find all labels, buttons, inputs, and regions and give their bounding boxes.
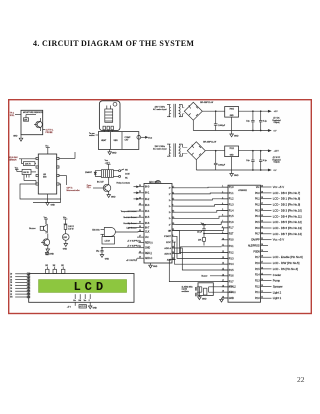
LCD supply pins <box>73 294 90 302</box>
wire +V rail (5 V) <box>202 110 268 112</box>
wire GND (MCU pin20) <box>220 298 228 302</box>
svg-text:SEN: SEN <box>114 140 119 142</box>
diode D1 1N4007 (flyback) <box>85 171 101 177</box>
label supply (ADC REF) <box>127 246 140 248</box>
ADC pin IN-6 <box>139 222 151 226</box>
wire LCD data 3 <box>10 279 30 282</box>
label BR-GBPC1-W (5 V) <box>200 102 213 104</box>
MCU pin 5 P1.4 <box>222 209 235 212</box>
svg-text:oscillator: oscillator <box>182 290 190 293</box>
svg-text:sensor: sensor <box>89 134 95 137</box>
voltage regulator 7812 (12 V) <box>225 146 239 170</box>
MCU pin 21 P2.0 <box>255 296 282 300</box>
schematic border frame <box>9 100 312 314</box>
wire 0V rail (5 V) <box>193 120 268 130</box>
ADC pin 2-4 <box>169 205 176 208</box>
svg-text:Pump: Pump <box>273 279 281 283</box>
ADC pin START <box>164 235 175 238</box>
svg-text:Vss: Vss <box>73 300 76 302</box>
MCU pin 36 P0.3 <box>255 208 302 212</box>
svg-text:CLK: CLK <box>145 232 150 234</box>
wire (sensor input) <box>134 198 139 200</box>
wire +V rail (12 V) <box>205 150 268 152</box>
ADC pin IN-4 <box>139 210 151 214</box>
svg-text:31: 31 <box>261 238 263 240</box>
svg-text:10 µF: 10 µF <box>197 231 203 233</box>
pin 7 (LM358 right) <box>57 166 59 168</box>
wire (ADC control to MCU P3.x) <box>176 236 229 258</box>
svg-text:LCD - DB 5 [Pin No.12]: LCD - DB 5 [Pin No.12] <box>273 220 302 224</box>
pin 8 (LM358 right) <box>57 157 59 159</box>
svg-text:IN-7: IN-7 <box>145 228 150 230</box>
svg-text:19: 19 <box>172 217 174 219</box>
MCU pin 9 RST <box>222 232 234 235</box>
ADC pin IN-0 <box>139 185 151 189</box>
MCU pin 4 P1.3 <box>222 203 235 206</box>
resistor 4.7K (LCD backlight) <box>79 305 86 309</box>
svg-text:REF(-): REF(-) <box>145 253 152 255</box>
AC mains input label (5 V) <box>153 107 167 112</box>
ADC pin 2-5 <box>169 211 176 214</box>
svg-text:P0.3: P0.3 <box>255 210 260 212</box>
svg-text:4.7K R: 4.7K R <box>80 306 87 308</box>
svg-text:GND: GND <box>234 175 239 177</box>
svg-text:27: 27 <box>261 262 263 264</box>
svg-text:REF(+): REF(+) <box>145 242 153 244</box>
ADC pin 2-6 <box>169 217 176 220</box>
MCU pin 1 P1.0 <box>222 186 235 189</box>
transformer T (5 V) <box>167 104 183 118</box>
ADC pin GND <box>139 246 151 250</box>
ADC pin IN-2 <box>139 197 151 201</box>
svg-text:17: 17 <box>139 236 141 238</box>
wire LCD data 8 <box>10 293 30 296</box>
wire (ADC ground reference) <box>102 247 139 248</box>
MQ-6 module pins <box>103 126 113 131</box>
svg-text:GND: GND <box>93 308 98 310</box>
filter capacitor 1000uF (12 V) <box>214 150 226 170</box>
wire (sensor input) <box>134 186 139 188</box>
svg-text:D7: D7 <box>10 294 12 296</box>
svg-text:LCD - DB 0 [Pin No.7]: LCD - DB 0 [Pin No.7] <box>273 191 301 195</box>
op-amp U2 LM358 <box>38 154 56 194</box>
power node Vcc +12V (relay) <box>105 160 111 170</box>
svg-text:1N4007: 1N4007 <box>85 172 93 174</box>
ADC pin 2-7 <box>169 223 176 226</box>
svg-text:38: 38 <box>261 197 263 199</box>
svg-text:LCD - DB 7 [Pin No.14]: LCD - DB 7 [Pin No.14] <box>273 232 302 236</box>
svg-text:IN-5: IN-5 <box>145 217 150 219</box>
MCU pin 27 P2.6 <box>255 261 300 265</box>
buzzer BZ1 <box>29 219 47 232</box>
wire (ADC data to MCU P1.3) <box>176 205 229 207</box>
pin 1 (LM358 left) <box>36 157 38 159</box>
label regulated output (12 V) <box>272 157 280 163</box>
svg-text:24: 24 <box>261 279 263 281</box>
svg-text:22: 22 <box>261 291 263 293</box>
svg-text:P0.4: P0.4 <box>255 216 260 218</box>
label regulated output (5 V) <box>272 118 280 124</box>
wire (LM358 pin to ADC) <box>59 152 75 159</box>
svg-text:Output): Output) <box>274 161 280 164</box>
bridge rectifier BR (5 V) <box>183 102 203 120</box>
svg-text:LCD - DB 2 [Pin No.9]: LCD - DB 2 [Pin No.9] <box>273 203 301 207</box>
filter capacitor 1000uF (5 V) <box>214 111 226 131</box>
svg-text:23: 23 <box>139 203 141 205</box>
label MQ output <box>43 130 55 134</box>
svg-text:D4: D4 <box>10 285 12 287</box>
transistor Q1 (BC547 in sensor box) <box>34 118 42 131</box>
svg-text:+12 V: +12 V <box>274 151 280 153</box>
power node Vcc (reset) <box>201 223 206 229</box>
transistor Q4 BC547 (relay driver) <box>97 177 111 191</box>
svg-text:1000µF: 1000µF <box>218 125 226 127</box>
svg-text:P2.4: P2.4 <box>255 275 260 277</box>
svg-text:XTAL2: XTAL2 <box>229 286 237 289</box>
wire (ADC control to MCU P3.x) <box>176 231 229 253</box>
svg-text:P3.4: P3.4 <box>229 264 234 266</box>
wire (ADC data to MCU P1.4) <box>176 210 229 212</box>
capacitor 0.1&#181;F (5 V) <box>259 111 268 131</box>
ground (LM358) <box>46 203 56 207</box>
svg-text:25: 25 <box>139 191 141 193</box>
MCU pin 13 P3.3 <box>222 257 235 260</box>
svg-text:34: 34 <box>261 221 263 223</box>
ground (gas module) <box>108 149 117 154</box>
AC mains input label (12 V) <box>153 146 167 151</box>
svg-text:28: 28 <box>261 256 263 258</box>
svg-text:10: 10 <box>222 238 224 240</box>
crystal circuit box <box>198 283 213 296</box>
MCU pin 20 GND <box>222 297 235 300</box>
svg-text:Vcc +5 V: Vcc +5 V <box>273 238 284 242</box>
svg-text:33: 33 <box>261 227 263 229</box>
svg-text:11: 11 <box>222 245 224 247</box>
voltage regulator 7805 (5 V) <box>225 107 239 131</box>
svg-text:LCD - DB 4 [Pin No.11]: LCD - DB 4 [Pin No.11] <box>273 214 302 218</box>
svg-text:LCD - DB 6 [Pin No.13]: LCD - DB 6 [Pin No.13] <box>273 226 302 230</box>
MCU pin 30 ALE/PROG <box>248 244 268 247</box>
wire (ADC data to MCU P1.7) <box>176 228 229 231</box>
ADC U3 0808 body <box>144 181 172 264</box>
ground (sensor box) <box>13 135 23 142</box>
label crystal oscillator <box>182 286 193 292</box>
svg-text:+5 V SUPPLY: +5 V SUPPLY <box>126 260 138 262</box>
MCU pin 16 P3.6 <box>222 274 235 277</box>
power node Vcc (LM35) <box>15 167 22 171</box>
microcontroller U5 AT89S52 body <box>228 185 261 302</box>
ADC pin IN-1 <box>139 191 151 195</box>
ADC pin REF(-) <box>139 251 153 255</box>
LCD text <box>73 280 107 294</box>
capacitor C1 (XTAL2) <box>196 287 199 291</box>
svg-text:D5: D5 <box>10 288 12 290</box>
wire (ADC control to MCU P3.x) <box>176 248 229 270</box>
svg-text:Vcc: Vcc <box>45 145 48 147</box>
svg-text:ADD-C: ADD-C <box>145 257 153 260</box>
MCU pin 39 P0.0 <box>255 191 300 195</box>
MCU pin 12 P3.2 <box>222 251 235 254</box>
svg-text:P3.3: P3.3 <box>229 258 234 260</box>
MCU pin 22 P2.1 <box>255 290 282 294</box>
MCU pin 29 PSEN <box>253 250 268 253</box>
svg-text:26: 26 <box>139 185 141 187</box>
svg-text:P2.2: P2.2 <box>255 286 260 288</box>
svg-text:1.5 kH: 1.5 kH <box>105 241 111 243</box>
ADC pin EOC <box>166 241 175 244</box>
svg-text:Vcc: Vcc <box>201 223 204 225</box>
svg-text:1/4 W: 1/4 W <box>68 228 73 230</box>
svg-text:GND: GND <box>145 248 150 250</box>
svg-text:P2.5: P2.5 <box>255 269 260 271</box>
svg-text:GND: GND <box>63 249 68 251</box>
power node Vcc (buzzer) <box>44 217 48 224</box>
MCU pin 18 XTAL2 <box>222 285 237 288</box>
svg-text:GND: GND <box>49 254 54 256</box>
resistor 10K (LDR divider) <box>64 224 75 234</box>
svg-text:P1.0: P1.0 <box>229 187 234 189</box>
LCD contrast trimmers <box>45 265 65 273</box>
label BR-GBPC1-W (12 V) <box>203 141 216 143</box>
MCU pin 15 P3.5 <box>222 269 235 272</box>
svg-text:26: 26 <box>261 267 263 269</box>
svg-text:Light 1: Light 1 <box>273 296 282 300</box>
svg-text:P0.5: P0.5 <box>255 222 260 224</box>
svg-text:6: 6 <box>172 235 173 237</box>
wire LCD data 9 <box>10 296 30 299</box>
svg-text:22: 22 <box>139 210 141 212</box>
svg-text:LCD: LCD <box>73 280 107 294</box>
pin 3 (LM358 left) <box>36 174 38 176</box>
label Light Sensor <box>127 226 139 229</box>
svg-text:IN-0: IN-0 <box>145 187 150 189</box>
svg-text:P1.5: P1.5 <box>229 216 234 218</box>
ADC pin ADD B <box>164 252 175 255</box>
label from microcontroller (relay base) <box>87 184 101 189</box>
wire (ADC control to MCU P3.x) <box>169 260 228 282</box>
svg-text:P2.1: P2.1 <box>255 292 260 294</box>
MCU pin 11 P3.1 <box>222 245 235 248</box>
svg-text:+5 V SUPPLY: +5 V SUPPLY <box>127 240 140 242</box>
svg-text:ADC 0808: ADC 0808 <box>149 181 160 184</box>
svg-text:IN-3: IN-3 <box>145 205 150 207</box>
MCU pin 7 P1.6 <box>222 221 235 224</box>
svg-text:P2.6: P2.6 <box>255 263 260 265</box>
svg-text:P3.6: P3.6 <box>229 276 234 278</box>
wire (ADC control to MCU P3.x) <box>175 242 229 264</box>
svg-text:LCD - R/W [Pin No.5]: LCD - R/W [Pin No.5] <box>273 261 300 265</box>
ADC pin Vcc <box>139 236 150 240</box>
svg-text:OE: OE <box>168 230 172 232</box>
bridge rectifier BR (12 V) <box>183 142 206 160</box>
svg-text:D2: D2 <box>10 279 12 281</box>
svg-text:39: 39 <box>261 191 263 193</box>
svg-text:HEAT: HEAT <box>101 139 107 142</box>
svg-text:18: 18 <box>172 211 174 213</box>
svg-text:8: 8 <box>172 205 173 207</box>
svg-text:GND: GND <box>202 298 207 300</box>
svg-text:P1.1: P1.1 <box>229 193 234 195</box>
ADC pin 2-2 <box>169 192 176 195</box>
svg-text:14: 14 <box>139 251 141 253</box>
capacitor 10&#181;F (5 V) <box>246 111 254 131</box>
svg-text:24: 24 <box>139 197 141 199</box>
svg-text:GND: GND <box>112 152 117 154</box>
relay RL1 coil <box>101 170 113 178</box>
ground (relay driver) <box>107 192 116 199</box>
svg-text:P2.3: P2.3 <box>255 281 260 283</box>
output arrow +12 V <box>268 150 279 153</box>
svg-text:40: 40 <box>261 186 263 188</box>
wire (sensor input) <box>134 192 139 194</box>
transformer T (12 V) <box>167 143 183 157</box>
svg-text:D3: D3 <box>10 282 12 284</box>
capacitor 10&#181;F (12 V) <box>246 150 254 170</box>
capacitor 10u (ADC ref) <box>96 248 110 261</box>
svg-text:19: 19 <box>139 226 141 228</box>
svg-text:P0.2: P0.2 <box>255 205 260 207</box>
svg-text:IN-1: IN-1 <box>145 193 150 195</box>
svg-text:20: 20 <box>172 223 174 225</box>
svg-text:30: 30 <box>261 244 263 246</box>
resistor 10K (reset) <box>198 233 228 246</box>
label Buzzer (P3.6) <box>202 275 229 278</box>
label supply (ADC ADD-C) <box>126 258 139 262</box>
label supply (ADC Vcc) <box>127 237 140 242</box>
svg-text:25: 25 <box>172 247 174 249</box>
label 556 kHz clock <box>92 230 99 232</box>
LCD display (green) <box>39 280 127 293</box>
svg-text:AC mains input: AC mains input <box>153 108 167 111</box>
LCD module board <box>29 274 134 303</box>
svg-text:SENSOR: SENSOR <box>9 159 17 161</box>
svg-text:7: 7 <box>172 241 173 243</box>
svg-text:RST: RST <box>229 233 234 235</box>
svg-text:P1.6: P1.6 <box>229 222 234 224</box>
MCU pin 31 EA/VPP <box>251 238 284 242</box>
gas sensor base board <box>98 132 138 150</box>
label +5V (LCD) <box>67 302 75 308</box>
svg-text:LDR: LDR <box>63 237 67 239</box>
svg-text:10K: 10K <box>45 265 48 267</box>
label Moisture Sensor <box>124 216 139 219</box>
svg-text:P0.6: P0.6 <box>255 228 260 230</box>
MCU pin 38 P0.1 <box>255 197 300 201</box>
svg-text:+5 V: +5 V <box>67 307 72 309</box>
ADC pin REF(+) <box>139 241 153 245</box>
svg-text:GND: GND <box>13 136 18 138</box>
svg-text:GND: GND <box>153 266 158 268</box>
svg-text:36: 36 <box>261 209 263 211</box>
svg-text:P3.7: P3.7 <box>229 282 234 284</box>
MCU pin 32 P0.7 <box>255 232 302 236</box>
MCU pin 37 P0.2 <box>255 203 300 207</box>
MCU pin 28 P2.7 <box>255 255 303 259</box>
svg-text:25: 25 <box>261 273 263 275</box>
svg-text:P0.7: P0.7 <box>255 234 260 236</box>
pin 5 (LM358 right) <box>57 183 59 185</box>
svg-text:LCD - DB 1 [Pin No.8]: LCD - DB 1 [Pin No.8] <box>273 197 301 201</box>
ground (crystal) <box>198 287 207 301</box>
label Temperature sensor <box>121 210 139 213</box>
svg-text:Relay Contacts: Relay Contacts <box>117 182 131 185</box>
MCU pin 14 P3.4 <box>222 263 235 266</box>
ADC pin ADD-C <box>139 257 153 261</box>
wire LCD data 4 <box>10 282 30 285</box>
power node Vcc (LDR) <box>63 217 67 224</box>
svg-text:P0.0: P0.0 <box>255 193 260 195</box>
svg-text:D0: D0 <box>10 274 12 276</box>
MCU pin 34 P0.5 <box>255 220 302 224</box>
wire LCD data 1 <box>10 273 30 276</box>
sensor interface box (moisture sensor driver) <box>21 110 43 134</box>
wire to microcontroller <box>59 176 80 192</box>
ground (LDR) <box>63 240 68 250</box>
svg-text:1000µF: 1000µF <box>218 164 226 166</box>
svg-text:IN-2: IN-2 <box>145 199 150 201</box>
svg-text:17: 17 <box>172 186 174 188</box>
ADC pin 2-3 <box>169 199 176 202</box>
MCU pin 2 P1.1 <box>222 192 235 195</box>
capacitor 10uF (reset) <box>197 229 206 238</box>
svg-text:Vee: Vee <box>84 300 87 302</box>
svg-text:ADD A: ADD A <box>164 247 171 250</box>
svg-text:ADD B: ADD B <box>164 253 171 256</box>
svg-text:Microcontroller: Microcontroller <box>67 189 80 192</box>
svg-text:AC mains input: AC mains input <box>153 148 167 151</box>
svg-text:Vcc: Vcc <box>44 217 47 219</box>
svg-text:IN-6: IN-6 <box>145 223 150 225</box>
svg-text:P1.4: P1.4 <box>229 210 234 212</box>
ADC pin IN-7 <box>139 226 151 230</box>
svg-text:10K R: 10K R <box>25 164 31 166</box>
resistor 10K R <box>22 159 37 166</box>
svg-text:PSEN: PSEN <box>253 251 260 253</box>
ground (regulator 7805) <box>230 131 239 138</box>
wire LCD data 5 <box>10 285 30 288</box>
wire LCD data 2 <box>10 276 30 279</box>
wire (ADC data to MCU P1.2) <box>176 199 229 200</box>
svg-text:Cooler: Cooler <box>273 273 281 277</box>
svg-text:23: 23 <box>261 285 263 287</box>
svg-text:BR-GBPC1-W: BR-GBPC1-W <box>203 141 216 143</box>
svg-text:21: 21 <box>261 297 263 299</box>
gas sensor MQ-6 module <box>99 101 120 131</box>
MCU pin 10 P3.0 <box>222 238 235 241</box>
svg-text:32: 32 <box>261 232 263 234</box>
output arrow 0V (5 V) <box>268 130 277 133</box>
svg-text:LCD - RS [Pin No.4]: LCD - RS [Pin No.4] <box>273 267 298 271</box>
svg-text:EA/VPP: EA/VPP <box>251 239 260 242</box>
svg-text:29: 29 <box>261 250 263 252</box>
svg-text:Vcc: Vcc <box>63 217 66 219</box>
MCU pin 35 P0.4 <box>255 214 302 218</box>
ground (LCD) <box>88 302 97 309</box>
wire (clock to ADC CLK) <box>115 231 144 233</box>
svg-text:14: 14 <box>172 192 174 194</box>
svg-text:P3.5: P3.5 <box>229 270 234 272</box>
MCU pin 3 P1.2 <box>222 197 235 200</box>
svg-text:BR-GBPC1-W: BR-GBPC1-W <box>200 102 213 104</box>
svg-text:XTAL1: XTAL1 <box>229 291 237 294</box>
svg-text:P3.2: P3.2 <box>229 253 234 255</box>
svg-text:IN-4: IN-4 <box>145 211 150 213</box>
svg-text:Vout: Vout <box>148 136 152 139</box>
svg-text:10K: 10K <box>53 265 56 267</box>
wire (ADC data to MCU P1.0) <box>176 186 229 189</box>
svg-text:AT89S52: AT89S52 <box>238 189 247 192</box>
svg-text:P2.x: P2.x <box>87 187 91 189</box>
